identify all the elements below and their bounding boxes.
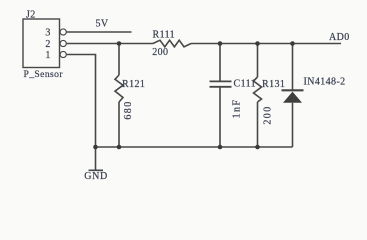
svg-text:1: 1	[45, 50, 50, 61]
svg-text:P_Sensor: P_Sensor	[24, 69, 64, 80]
svg-text:2: 2	[45, 39, 50, 50]
svg-text:3: 3	[45, 27, 50, 38]
junction node R121/top	[117, 41, 122, 46]
ground GND	[89, 169, 104, 171]
svg-text:680: 680	[123, 100, 134, 119]
junction node pin1/rail	[93, 145, 98, 150]
capacitor C111	[210, 81, 232, 86]
junction node R121/rail	[117, 145, 122, 150]
pin 2	[60, 40, 66, 46]
svg-text:5V: 5V	[96, 19, 109, 30]
svg-text:IN4148-2: IN4148-2	[304, 77, 346, 88]
resistor R131	[254, 77, 262, 102]
svg-text:AD0: AD0	[329, 32, 350, 43]
junction node R131/rail	[255, 145, 260, 150]
resistor R121	[115, 75, 123, 102]
diode D IN4148-2	[282, 90, 304, 103]
svg-text:200: 200	[263, 105, 274, 124]
junction node C111/top	[218, 41, 223, 46]
wire R111 to AD0	[191, 43, 341, 45]
resistor R111	[153, 40, 191, 47]
junction node C111/rail	[218, 145, 223, 150]
svg-text:J2: J2	[26, 10, 36, 21]
wire R131 bottom lead	[257, 102, 259, 147]
pin 3	[60, 29, 66, 35]
svg-text:C111: C111	[234, 79, 257, 90]
wire R121 top lead	[118, 44, 120, 76]
connector J2	[23, 19, 60, 68]
wire ground rail	[96, 146, 293, 148]
wire 5V net	[66, 31, 131, 33]
wire diode top lead	[292, 44, 294, 91]
wire C111 top lead	[219, 44, 221, 82]
svg-text:1nF: 1nF	[232, 99, 243, 119]
svg-text:R111: R111	[153, 30, 176, 41]
wire R121 bottom lead	[118, 102, 120, 147]
junction node R131/top	[255, 41, 260, 46]
wire pin2 to R111	[66, 43, 153, 45]
wire pin1 to ground rail	[66, 55, 95, 148]
junction node diode/top	[290, 41, 295, 46]
wire diode bottom lead	[292, 103, 294, 147]
wire gnd stub	[95, 147, 97, 170]
wire R131 top lead	[257, 44, 259, 78]
svg-text:R121: R121	[122, 79, 145, 90]
pin 1	[60, 51, 66, 57]
wire C111 bottom lead	[219, 87, 221, 147]
svg-text:GND: GND	[84, 171, 107, 182]
svg-text:R131: R131	[262, 79, 285, 90]
svg-text:200: 200	[152, 47, 168, 58]
